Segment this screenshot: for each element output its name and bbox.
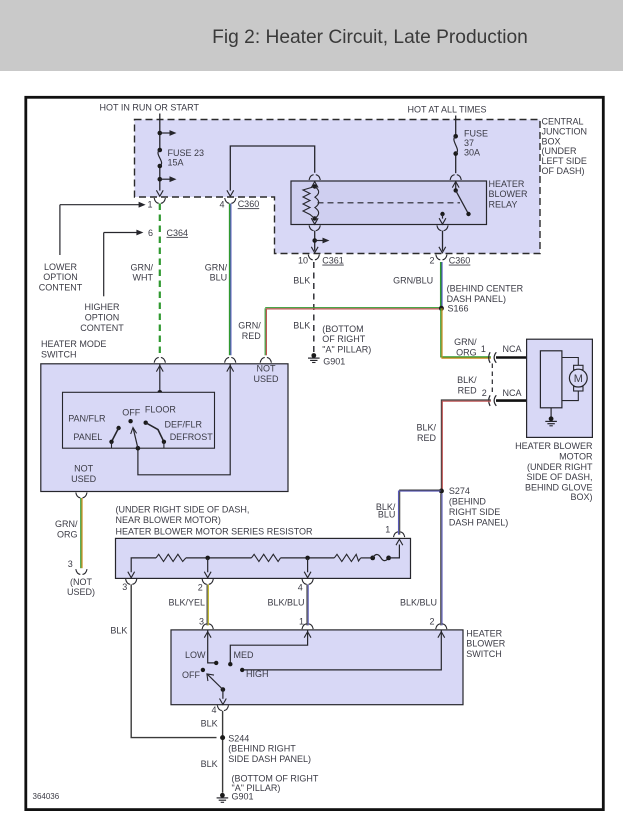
svg-text:G901: G901: [232, 792, 254, 802]
svg-text:OFF: OFF: [182, 670, 200, 680]
motor M circle: [569, 369, 587, 387]
arrow into pin 1: [156, 190, 163, 196]
svg-text:3: 3: [68, 559, 73, 569]
splice S274: [439, 489, 444, 494]
svg-text:(UNDER: (UNDER: [542, 146, 577, 156]
svg-text:2: 2: [198, 583, 203, 593]
switch pin cup GRN/BLU: [225, 357, 236, 362]
svg-text:GRN/BLU: GRN/BLU: [393, 276, 433, 286]
svg-text:CONTENT: CONTENT: [80, 323, 124, 333]
svg-text:BLU: BLU: [210, 273, 228, 283]
relay pin cup bottom-right: [437, 225, 448, 230]
inline connector NCA pin 2: [489, 395, 497, 406]
central junction box (dashed): [135, 120, 541, 254]
motor ground: [550, 408, 552, 417]
relay pin cup bottom-left: [309, 225, 320, 230]
svg-text:CONTENT: CONTENT: [39, 283, 83, 293]
svg-text:BLK/YEL: BLK/YEL: [168, 597, 205, 607]
contact chain FLOOR DEF/FLR DEFROST: [144, 421, 148, 425]
svg-text:HEATER BLOWER: HEATER BLOWER: [515, 441, 593, 451]
svg-text:2: 2: [429, 617, 434, 627]
svg-text:SWITCH: SWITCH: [466, 649, 502, 659]
resistor internal wire right leg to pin 1: [389, 545, 400, 558]
svg-text:NOT: NOT: [74, 464, 94, 474]
connector C360 pin 1: [154, 198, 165, 203]
svg-text:HEATER MODE: HEATER MODE: [41, 339, 106, 349]
mode switch wiper: [136, 446, 141, 451]
svg-text:BLK: BLK: [293, 276, 310, 286]
svg-text:GRN/: GRN/: [454, 337, 477, 347]
svg-text:4: 4: [298, 583, 303, 593]
relay coil (resistor zigzag): [313, 184, 317, 188]
svg-text:BLOWER: BLOWER: [466, 639, 506, 649]
svg-text:BLU: BLU: [378, 509, 396, 519]
svg-text:HEATER: HEATER: [466, 628, 502, 638]
node branch stub upper: [158, 131, 163, 136]
svg-text:OPTION: OPTION: [43, 272, 78, 282]
svg-text:RELAY: RELAY: [489, 200, 518, 210]
svg-text:1: 1: [147, 200, 152, 210]
contact pair PAN/FLR PANEL: [116, 426, 120, 430]
wire inside: MED leg: [230, 630, 307, 664]
wire BLK/BLU resistor pin 4 to switch pin 1: [306, 584, 308, 625]
svg-text:MOTOR: MOTOR: [559, 452, 593, 462]
svg-text:BLK: BLK: [293, 321, 310, 331]
svg-text:"A" PILLAR): "A" PILLAR): [322, 345, 371, 355]
wire BLK switch pin 4 to S244: [222, 711, 224, 793]
wire BLK from resistor pin 3 to S244: [131, 584, 216, 737]
svg-text:1: 1: [385, 524, 390, 534]
wire inside: HIGH leg: [242, 630, 441, 670]
svg-text:OFF: OFF: [122, 408, 140, 418]
svg-text:BLK/: BLK/: [416, 423, 436, 433]
svg-text:RED: RED: [242, 331, 262, 341]
relay armature: [454, 188, 458, 192]
svg-text:364036: 364036: [33, 792, 60, 801]
wire branch to relay and pin 4: [230, 146, 314, 191]
svg-text:(NOT: (NOT: [70, 577, 92, 587]
svg-text:S274: S274: [449, 486, 470, 496]
svg-text:RED: RED: [458, 385, 478, 395]
svg-text:Fig 2: Heater Circuit, Late Pr: Fig 2: Heater Circuit, Late Production: [212, 27, 528, 48]
svg-text:(BOTTOM: (BOTTOM: [322, 324, 363, 334]
svg-text:JUNCTION: JUNCTION: [542, 126, 588, 136]
node 2 leg: [207, 558, 209, 572]
wire to node 4: [281, 557, 335, 559]
motor armature rect: [540, 351, 562, 408]
relay pin cup top-right: [450, 175, 461, 180]
svg-text:(BEHIND RIGHT: (BEHIND RIGHT: [228, 744, 296, 754]
connector link dashed: [491, 364, 493, 395]
svg-text:LOWER: LOWER: [44, 262, 78, 272]
svg-text:C364: C364: [167, 228, 189, 238]
svg-text:30A: 30A: [464, 148, 480, 158]
svg-text:(UNDER RIGHT SIDE OF DASH,: (UNDER RIGHT SIDE OF DASH,: [116, 504, 250, 514]
splice S244: [220, 735, 225, 740]
node branch stub lower: [158, 177, 163, 182]
wire GRN/BLU from pin 4: [229, 204, 231, 356]
wire relay output to C360: [442, 231, 444, 251]
resistor pin 4: [302, 579, 313, 584]
svg-text:CENTRAL: CENTRAL: [542, 117, 584, 127]
svg-text:(BEHIND CENTER: (BEHIND CENTER: [447, 284, 524, 294]
svg-text:PANEL: PANEL: [73, 432, 102, 442]
motor brush top: [574, 365, 583, 369]
wire GRN/BLU from C360 pin 2 to S166: [440, 262, 442, 308]
wire lower option content stub: [59, 205, 61, 255]
svg-text:FLOOR: FLOOR: [145, 405, 177, 415]
relay U1 heater blower relay box: [291, 181, 487, 225]
relay pin cup top-left: [309, 175, 320, 180]
svg-text:ORG: ORG: [57, 529, 78, 539]
motor brush bottom: [574, 387, 583, 391]
heater mode switch box: [41, 364, 288, 492]
connector C360 pin 2: [436, 255, 447, 260]
wire GRN/WHT (dashed green): [159, 204, 161, 355]
svg-text:2: 2: [429, 256, 434, 266]
svg-text:G901: G901: [323, 357, 345, 367]
svg-text:GRN/: GRN/: [238, 320, 261, 330]
svg-text:HEATER: HEATER: [489, 179, 525, 189]
wire BLK/BLU S274 to switch pin 2: [440, 494, 442, 626]
svg-text:USED: USED: [71, 474, 97, 484]
svg-text:10: 10: [298, 256, 308, 266]
svg-text:DASH PANEL): DASH PANEL): [449, 517, 508, 527]
svg-text:M: M: [574, 373, 583, 385]
svg-text:RIGHT SIDE: RIGHT SIDE: [449, 507, 500, 517]
motor wiring: [562, 358, 578, 366]
blower switch wiper: [221, 687, 226, 692]
diagram outer border: [26, 97, 604, 809]
svg-text:WHT: WHT: [133, 273, 154, 283]
contact OFF: [201, 668, 205, 672]
wire GRN/RED from S166 to heater mode switch: [264, 308, 266, 355]
wire inside: GRN/BLU leg: [138, 364, 230, 475]
ground G901 (A pillar): [308, 353, 320, 362]
wire inside: LOW leg: [208, 630, 217, 663]
svg-text:OF DASH): OF DASH): [542, 166, 585, 176]
svg-text:BLK/: BLK/: [457, 375, 477, 385]
switch pin 4: [217, 705, 228, 710]
mode switch inner box: [63, 392, 215, 448]
fuse F23: [158, 148, 163, 153]
heater blower motor series resistor box R1: [116, 538, 411, 578]
wire relay coil to C361: [314, 231, 316, 251]
resistor element 3: [334, 554, 360, 561]
svg-text:OF RIGHT: OF RIGHT: [322, 334, 365, 344]
svg-text:GRN/: GRN/: [55, 519, 78, 529]
svg-text:OPTION: OPTION: [85, 313, 120, 323]
svg-text:(UNDER RIGHT: (UNDER RIGHT: [527, 462, 593, 472]
relay link (dashed): [318, 202, 461, 204]
wire hot-at-all-times feed: [455, 116, 457, 137]
svg-text:NCA: NCA: [503, 344, 522, 354]
contact OFF: [128, 419, 132, 423]
svg-text:BLOWER: BLOWER: [489, 189, 529, 199]
svg-text:DEFROST: DEFROST: [170, 432, 214, 442]
wire GRN/ORG stub: [80, 498, 82, 568]
svg-text:6: 6: [148, 228, 153, 238]
svg-text:(BEHIND: (BEHIND: [449, 497, 487, 507]
connector C361 pin 10: [308, 255, 319, 260]
arrow into relay switch: [452, 182, 459, 188]
svg-text:ORG: ORG: [456, 347, 477, 357]
svg-text:USED): USED): [67, 587, 95, 597]
svg-text:HIGHER: HIGHER: [84, 302, 120, 312]
svg-text:15A: 15A: [168, 158, 184, 168]
relay output contact: [440, 212, 444, 216]
svg-text:GRN/: GRN/: [205, 262, 228, 272]
wire inside: GRN/WHT leg: [159, 364, 161, 393]
svg-text:BOX: BOX: [542, 136, 561, 146]
svg-text:SIDE DASH PANEL): SIDE DASH PANEL): [228, 754, 311, 764]
svg-text:FUSE 23: FUSE 23: [168, 148, 205, 158]
ground G901 (bottom): [217, 793, 229, 802]
svg-text:BLK: BLK: [201, 759, 218, 769]
resistor element 1: [156, 554, 186, 561]
header band: [0, 0, 623, 71]
wire motor feed pin 1 (thick): [496, 356, 541, 359]
wire BLK/RED motor pin 2 to S274: [441, 400, 491, 491]
svg-text:MED: MED: [234, 650, 255, 660]
svg-text:BLK/BLU: BLK/BLU: [267, 597, 304, 607]
svg-text:GRN/: GRN/: [131, 262, 154, 272]
switch pin cup GRN/WHT: [154, 357, 165, 362]
svg-text:BOX): BOX): [570, 492, 592, 502]
svg-text:USED: USED: [253, 374, 279, 384]
relay coil (inductor arcs): [315, 187, 319, 219]
switch pin cup GRN/RED (not used): [260, 357, 271, 362]
wire hot-in-run feed: [159, 114, 161, 151]
wire BLK dashed from C361 pin 10: [313, 262, 315, 352]
heater blower motor box: [527, 339, 593, 437]
wiper to pin 4: [222, 690, 224, 699]
wire motor feed pin 2 (thick): [496, 399, 541, 402]
svg-text:HOT IN RUN OR START: HOT IN RUN OR START: [100, 103, 200, 113]
heater blower switch box: [171, 630, 463, 705]
node stub right: [312, 238, 317, 243]
wire GRN/ORG from S166 to motor pin 1: [441, 308, 491, 357]
thermal limiter: [361, 557, 373, 559]
svg-text:DASH PANEL): DASH PANEL): [447, 294, 506, 304]
wire BLK/YEL resistor pin 2 to switch pin 3: [206, 584, 208, 625]
node 4 leg: [307, 558, 309, 572]
splice S166: [439, 306, 444, 311]
svg-text:NCA: NCA: [503, 388, 522, 398]
svg-text:HIGH: HIGH: [246, 669, 269, 679]
svg-text:LEFT SIDE: LEFT SIDE: [542, 156, 587, 166]
svg-text:C361: C361: [322, 256, 344, 266]
inline connector NCA pin 1: [489, 352, 497, 363]
svg-text:S166: S166: [448, 303, 469, 313]
svg-text:NEAR BLOWER MOTOR): NEAR BLOWER MOTOR): [116, 515, 221, 525]
svg-text:2: 2: [482, 388, 487, 398]
svg-text:FUSE: FUSE: [464, 129, 488, 139]
wire to node 2: [186, 557, 252, 559]
resistor internal wire left leg: [131, 558, 156, 572]
svg-text:NOT: NOT: [257, 364, 277, 374]
svg-text:SWITCH: SWITCH: [41, 349, 77, 359]
wire higher option content stub: [103, 233, 105, 297]
svg-text:(BOTTOM OF RIGHT: (BOTTOM OF RIGHT: [232, 773, 319, 783]
svg-text:37: 37: [464, 138, 474, 148]
svg-text:BEHIND GLOVE: BEHIND GLOVE: [525, 482, 593, 492]
fuse F37: [453, 134, 458, 139]
svg-text:BLK: BLK: [201, 719, 218, 729]
svg-text:C360: C360: [238, 199, 260, 209]
svg-text:3: 3: [122, 582, 127, 592]
svg-text:4: 4: [211, 705, 216, 715]
resistor pin 2: [202, 579, 213, 584]
connector C360 pin 4: [225, 198, 236, 203]
svg-text:DEF/FLR: DEF/FLR: [165, 419, 203, 429]
svg-text:C360: C360: [449, 256, 471, 266]
arrow into relay coil: [311, 182, 318, 188]
svg-text:HEATER BLOWER MOTOR SERIES RES: HEATER BLOWER MOTOR SERIES RESISTOR: [116, 526, 314, 536]
arrow coil to ground pin: [311, 218, 318, 224]
svg-text:PAN/FLR: PAN/FLR: [68, 413, 106, 423]
switch pin cup bottom (GRN/ORG not used): [76, 493, 87, 498]
svg-text:1: 1: [481, 344, 486, 354]
svg-text:LOW: LOW: [185, 650, 206, 660]
svg-text:SIDE OF DASH,: SIDE OF DASH,: [526, 472, 592, 482]
resistor element 2: [251, 554, 280, 561]
arrow higher option into pin 6: [104, 232, 138, 234]
svg-text:RED: RED: [417, 433, 437, 443]
wire BLK/BLU S274 to resistor pin 1: [400, 490, 442, 535]
svg-text:HOT AT ALL TIMES: HOT AT ALL TIMES: [408, 105, 487, 115]
svg-text:4: 4: [219, 200, 224, 210]
svg-text:BLK/BLU: BLK/BLU: [400, 597, 437, 607]
svg-text:BLK: BLK: [110, 626, 127, 636]
arrow lower option into pin 1: [60, 204, 140, 206]
svg-text:S244: S244: [228, 734, 249, 744]
resistor pin 3: [126, 579, 137, 584]
